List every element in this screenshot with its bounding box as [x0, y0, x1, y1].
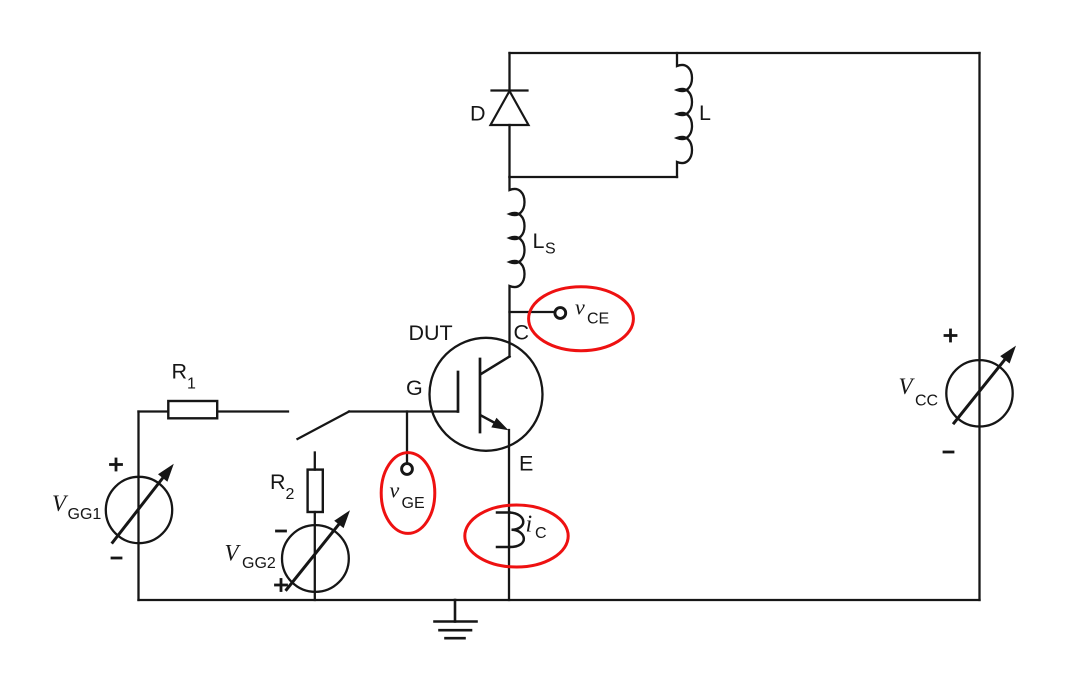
red ellipse vCE — [529, 287, 634, 351]
svg-text:GG2: GG2 — [242, 555, 276, 572]
wire emitter down — [508, 430, 510, 600]
svg-text:GE: GE — [402, 495, 425, 512]
VCC minus — [944, 451, 953, 454]
probe iC tick top — [497, 511, 510, 514]
svg-text:V: V — [52, 491, 69, 516]
svg-text:G: G — [406, 376, 423, 400]
wire R1 to switch — [217, 410, 288, 412]
VCC plus — [945, 330, 956, 341]
wire vCE tap — [510, 311, 555, 313]
inductor L — [677, 53, 692, 177]
probe iC coil — [510, 513, 524, 548]
source VGG2 arrow — [287, 520, 343, 589]
source VCC arrow — [954, 356, 1008, 423]
diode D — [491, 91, 529, 126]
svg-text:S: S — [545, 241, 556, 258]
wire top bus — [510, 52, 980, 54]
svg-text:v: v — [390, 478, 400, 503]
resistor R2 stub — [314, 453, 316, 470]
IGBT emitter diagonal — [481, 416, 502, 427]
IGBT collector diagonal — [481, 357, 510, 375]
switch blade — [298, 412, 350, 440]
source VCC circle — [946, 360, 1012, 426]
inductor Ls (stray) — [510, 177, 525, 357]
wire gate — [349, 410, 457, 412]
svg-text:D: D — [470, 102, 486, 126]
terminal vCE — [555, 308, 566, 319]
wire diode branch lower — [508, 125, 510, 177]
IGBT channel bar — [479, 359, 482, 432]
svg-text:C: C — [514, 321, 530, 345]
svg-text:i: i — [526, 512, 533, 538]
red ellipse vGE — [381, 453, 435, 534]
source VGG1 circle — [106, 477, 172, 543]
svg-text:L: L — [533, 229, 545, 253]
wire diode branch upper — [508, 53, 510, 91]
probe iC tick bottom — [497, 546, 510, 549]
wire loop bottom — [510, 176, 678, 178]
VGG1 minus — [112, 557, 121, 560]
svg-text:1: 1 — [187, 376, 196, 393]
svg-text:L: L — [699, 101, 711, 125]
svg-text:CE: CE — [587, 311, 609, 328]
svg-text:GG1: GG1 — [68, 506, 102, 523]
wire bottom bus — [139, 599, 980, 601]
svg-text:DUT: DUT — [409, 321, 453, 345]
svg-text:2: 2 — [286, 486, 295, 503]
ground — [435, 600, 477, 638]
svg-text:E: E — [519, 452, 533, 476]
wire left corner to R1 — [139, 410, 169, 412]
VGG2 plus — [276, 580, 287, 591]
wire right bus — [978, 53, 980, 600]
svg-text:v: v — [575, 295, 585, 320]
svg-text:V: V — [225, 541, 242, 566]
svg-text:R: R — [172, 360, 188, 384]
IGBT gate bar — [457, 372, 460, 412]
svg-text:R: R — [270, 470, 286, 494]
IGBT emitter arrowhead — [491, 418, 508, 431]
VGG2 minus — [277, 530, 286, 533]
resistor R1 — [168, 401, 217, 418]
terminal vGE — [402, 464, 413, 475]
source VGG2 circle — [282, 525, 349, 592]
svg-text:V: V — [899, 374, 916, 399]
wire left vertical — [137, 412, 139, 601]
op transistor DUT (IGBT) circle — [430, 338, 543, 451]
VGG1 plus — [111, 459, 122, 470]
source VGG1 arrow — [113, 474, 166, 543]
red ellipse iC — [465, 505, 568, 567]
svg-text:CC: CC — [915, 393, 938, 410]
svg-text:C: C — [535, 525, 547, 542]
resistor R2 — [308, 470, 323, 512]
wire R2 to bottom — [314, 512, 316, 600]
wire vGE tap — [406, 412, 408, 464]
